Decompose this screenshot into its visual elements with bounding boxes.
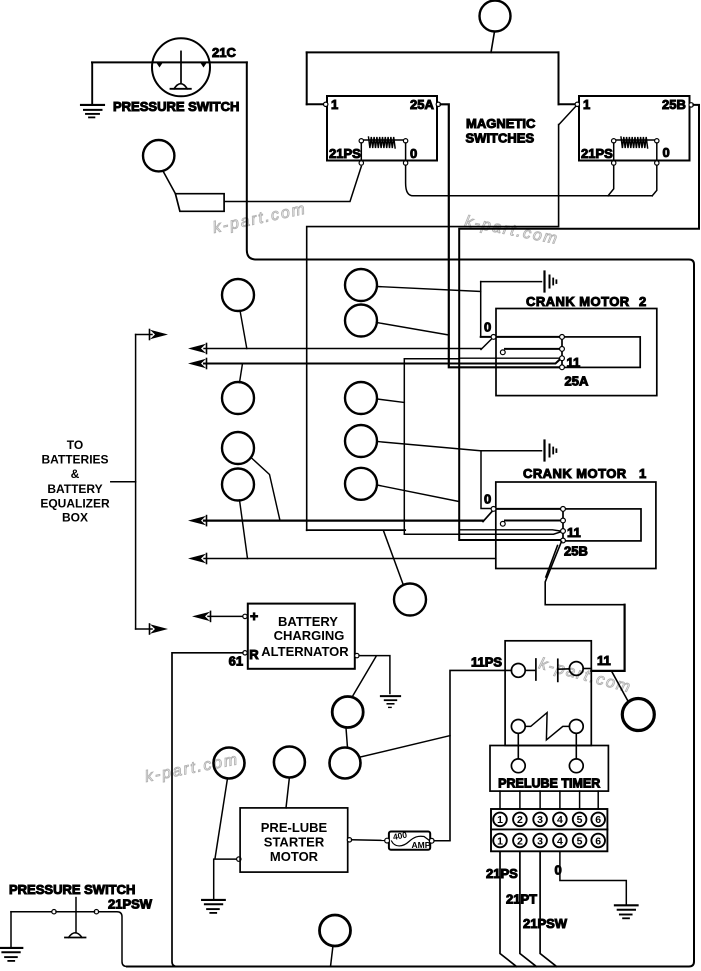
svg-text:CRANK MOTOR: CRANK MOTOR: [523, 466, 627, 481]
svg-text:11PS: 11PS: [471, 655, 502, 670]
svg-text:MOTOR: MOTOR: [270, 849, 319, 864]
svg-text:EQUALIZER: EQUALIZER: [40, 496, 110, 510]
svg-text:MAGNETIC: MAGNETIC: [466, 116, 536, 131]
svg-text:25B: 25B: [564, 544, 588, 559]
svg-text:BATTERIES: BATTERIES: [41, 453, 108, 467]
svg-text:1: 1: [583, 97, 590, 112]
svg-text:21PS: 21PS: [486, 866, 518, 881]
svg-text:PRESSURE SWITCH: PRESSURE SWITCH: [9, 882, 135, 897]
svg-text:R: R: [249, 647, 259, 662]
svg-text:&: &: [71, 467, 80, 481]
svg-text:+: +: [250, 608, 258, 624]
svg-text:21PSW: 21PSW: [523, 916, 568, 931]
svg-text:1: 1: [497, 835, 503, 847]
svg-text:PRELUBE TIMER: PRELUBE TIMER: [498, 777, 600, 791]
svg-text:STARTER: STARTER: [264, 835, 325, 850]
svg-text:TO: TO: [67, 438, 83, 452]
svg-text:61: 61: [229, 654, 243, 669]
svg-text:25B: 25B: [662, 97, 686, 112]
svg-text:21PS: 21PS: [581, 146, 613, 161]
svg-text:CRANK MOTOR: CRANK MOTOR: [526, 294, 630, 309]
svg-text:0: 0: [484, 320, 491, 335]
svg-text:1: 1: [331, 97, 338, 112]
svg-text:BATTERY: BATTERY: [47, 482, 102, 496]
svg-text:5: 5: [577, 835, 583, 847]
svg-text:2: 2: [517, 814, 523, 826]
svg-text:AMP: AMP: [412, 840, 431, 850]
svg-text:PRE-LUBE: PRE-LUBE: [261, 820, 328, 835]
svg-text:25A: 25A: [410, 97, 434, 112]
svg-text:PRESSURE SWITCH: PRESSURE SWITCH: [113, 99, 239, 114]
svg-text:0: 0: [555, 863, 562, 878]
svg-text:BOX: BOX: [62, 511, 88, 525]
svg-text:0: 0: [410, 146, 417, 161]
svg-text:5: 5: [577, 814, 583, 826]
svg-text:CHARGING: CHARGING: [274, 628, 345, 643]
svg-text:SWITCHES: SWITCHES: [466, 130, 535, 145]
svg-text:ALTERNATOR: ALTERNATOR: [261, 644, 349, 659]
svg-text:21PSW: 21PSW: [108, 897, 153, 912]
svg-text:21PS: 21PS: [329, 146, 361, 161]
svg-text:1: 1: [497, 814, 503, 826]
svg-text:0: 0: [484, 492, 491, 507]
svg-text:11: 11: [597, 653, 611, 668]
svg-text:3: 3: [537, 814, 543, 826]
svg-text:3: 3: [537, 835, 543, 847]
svg-text:4: 4: [557, 835, 563, 847]
svg-text:11: 11: [567, 525, 581, 540]
svg-text:0: 0: [663, 145, 670, 160]
svg-text:11: 11: [567, 355, 581, 370]
svg-text:25A: 25A: [565, 374, 589, 389]
svg-text:4: 4: [557, 814, 563, 826]
svg-text:21PT: 21PT: [506, 892, 537, 907]
svg-text:6: 6: [595, 814, 601, 826]
svg-text:6: 6: [595, 835, 601, 847]
svg-text:2: 2: [517, 835, 523, 847]
svg-text:BATTERY: BATTERY: [278, 614, 338, 629]
svg-text:2: 2: [639, 294, 646, 309]
svg-text:21C: 21C: [212, 45, 236, 60]
svg-text:1: 1: [639, 466, 646, 481]
